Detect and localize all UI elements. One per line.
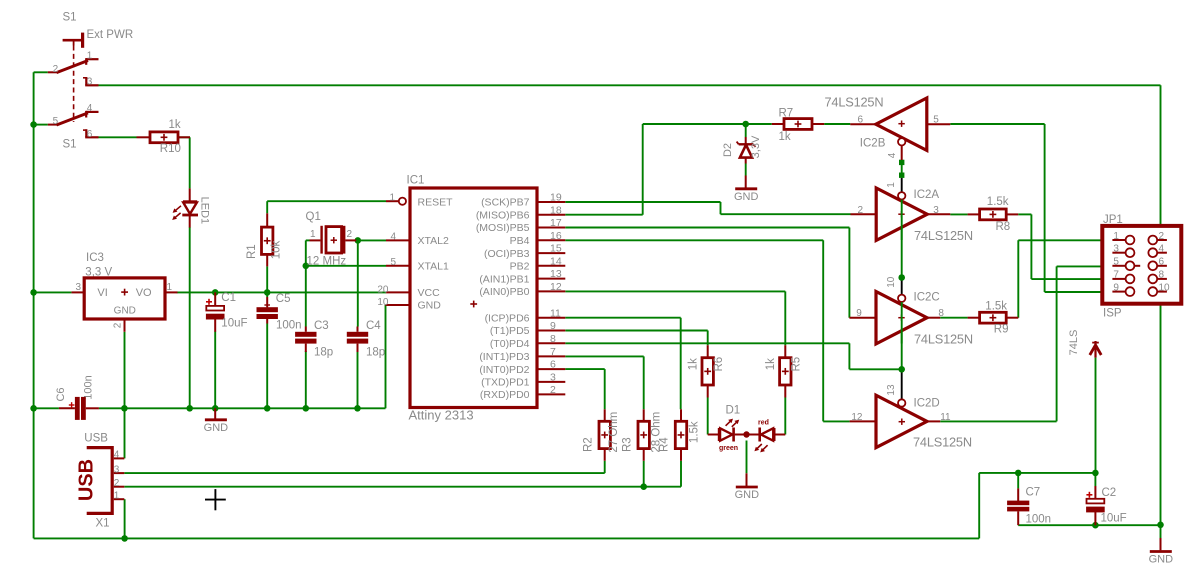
svg-text:(AIN0)PB0: (AIN0)PB0: [479, 286, 529, 298]
wire pin12 down to R5: [784, 291, 786, 345]
svg-text:(ICP)PD6: (ICP)PD6: [485, 312, 530, 324]
wire enable black segment 3: [901, 371, 903, 399]
connector JP1 pin 2 stub: [1157, 239, 1167, 241]
svg-text:27 Ohm: 27 Ohm: [608, 412, 620, 453]
resistor R9 value 1.5k: [985, 301, 1007, 313]
svg-text:(MISO)PB6: (MISO)PB6: [476, 209, 530, 221]
wire R6 bottom to green LED: [707, 398, 709, 435]
svg-text:100n: 100n: [276, 320, 302, 332]
IC IC1 pin 15 stub: [538, 252, 566, 254]
svg-text:(T0)PD4: (T0)PD4: [490, 338, 530, 350]
connector JP1 pin 6 number: [1159, 257, 1165, 268]
svg-text:3,3V: 3,3V: [750, 135, 762, 158]
svg-text:C7: C7: [1026, 487, 1041, 499]
wire RESET net horizontal: [267, 200, 386, 202]
wire RESET to R1 top: [266, 201, 268, 213]
IC IC3 GND label: [114, 306, 136, 317]
IC IC2A origin cross: [898, 211, 904, 217]
wire IC2D out: [940, 420, 1056, 422]
connector X1 USB text: [76, 459, 98, 501]
wire S1 pin2 to left rail: [34, 71, 48, 73]
capacitor C6 value 100n: [83, 375, 95, 399]
connector X1 pin 4 number: [114, 450, 120, 461]
IC IC1 pin 3 number: [550, 372, 556, 384]
wire XTAL2 node down to C4: [357, 240, 359, 326]
IC IC1 pin 7 name (INT1)PD3: [479, 351, 529, 363]
capacitor C3 plates: [295, 332, 316, 344]
IC IC2C pin8 number: [938, 308, 944, 319]
svg-text:4: 4: [1159, 244, 1165, 255]
svg-text:2: 2: [1159, 231, 1165, 242]
IC IC1 left pin 10 name GND: [418, 300, 442, 312]
LED D1 mid lead right: [750, 434, 759, 436]
junction R1-C5 / 3.3V rail: [264, 289, 271, 296]
svg-text:10: 10: [1159, 282, 1171, 293]
crystal Q1 pin1 stub: [310, 239, 321, 241]
svg-text:GND: GND: [735, 489, 760, 501]
junction C2 / VCC-74LS rail: [1092, 470, 1099, 477]
wire USB pin3 row D-: [124, 472, 604, 474]
IC IC1 pin 11 stub: [538, 317, 566, 319]
IC IC2B enable bubble pin4: [898, 138, 905, 145]
svg-text:USB: USB: [84, 433, 108, 445]
connector JP1 pin5 tail: [1134, 265, 1140, 267]
connector JP1 pin 7 number: [1113, 270, 1119, 281]
svg-text:10: 10: [377, 297, 389, 308]
IC IC1 pin 17 stub: [538, 227, 566, 229]
connector JP1 pin 4 stub: [1157, 252, 1167, 254]
svg-text:1k: 1k: [779, 131, 791, 143]
wire R8 to corner: [1018, 213, 1031, 215]
wire PB7 pin19 row: [565, 201, 720, 203]
IC IC1 pin20 number: [377, 285, 389, 296]
connector JP1 body: [1102, 226, 1181, 304]
svg-text:15: 15: [550, 243, 562, 255]
supply VCC-74LS arrow: [1090, 341, 1101, 358]
IC IC2C pin10 number: [886, 276, 897, 288]
IC IC1 pin 7 number: [550, 346, 556, 358]
IC IC1 pin 16 number: [550, 230, 562, 242]
resistor R2 value: [608, 412, 620, 453]
IC IC1 pin 19 number: [550, 192, 562, 204]
resistor R5 bottom stub: [784, 385, 786, 398]
IC IC2D enable bubble pin13: [898, 399, 905, 406]
capacitor C1 value 10uF: [221, 317, 247, 329]
wire Q1 pin1 corner: [306, 239, 310, 241]
svg-text:11: 11: [940, 412, 951, 423]
resistor R9 body: [980, 312, 1007, 323]
resistor R3 value: [650, 412, 662, 453]
diode D2 triangle: [740, 145, 752, 158]
capacitor C4 value 18p: [366, 346, 385, 358]
IC IC1 body: [410, 188, 537, 408]
wire pin16 down to IC2D input: [822, 240, 824, 421]
IC IC1 pin 14 number: [550, 255, 562, 267]
svg-text:ISP: ISP: [1103, 307, 1122, 319]
svg-text:(INT0)PD2: (INT0)PD2: [479, 364, 529, 376]
IC IC2A pin1 number: [886, 182, 897, 188]
wire RESET net up: [1056, 266, 1058, 421]
IC IC1 pin 5 stub: [386, 265, 410, 267]
resistor R7 value 1k: [779, 131, 791, 143]
connector JP1 pin 1 number: [1113, 231, 1119, 242]
IC IC1 pin 3 stub: [538, 381, 566, 383]
switch S1 pin 1 contact: [86, 58, 99, 65]
IC IC1 pin 9 stub: [538, 330, 566, 332]
wire IC2C out to R9: [940, 317, 967, 319]
LED LED1 triangle: [183, 202, 197, 214]
wire PD2 pin6 row: [565, 368, 604, 370]
junction IC3 GND / GND rail: [121, 405, 128, 412]
svg-text:10: 10: [886, 276, 897, 288]
IC IC1 pin 14 name PB2: [510, 261, 530, 273]
switch S1 pin3 number: [87, 77, 93, 88]
junction C1 / 3.3V rail: [212, 289, 219, 296]
junction C3 / GND rail: [303, 405, 310, 412]
svg-text:100n: 100n: [1026, 513, 1052, 525]
svg-text:C4: C4: [366, 320, 381, 332]
junction XTAL2 node: [355, 237, 362, 244]
junction C1-GND symbol / GND rail: [212, 405, 219, 412]
wire PD3 pin7 row: [565, 355, 643, 357]
svg-text:1: 1: [167, 282, 173, 293]
connector JP1 pin 9 number: [1113, 282, 1119, 293]
wire LED1 anode vertical: [189, 137, 191, 188]
switch S1 pin5 number: [53, 116, 59, 127]
IC IC2B input stub: [850, 123, 876, 125]
wire S1 pin3 long top net: [99, 84, 1161, 86]
IC IC2B name: [860, 138, 886, 150]
wire Q1 pin2 to node: [356, 239, 358, 241]
wire pin7 down to R3: [643, 356, 645, 409]
resistor R3 body: [638, 421, 649, 448]
wire VCC-74LS rail horizontal: [979, 472, 1095, 474]
IC IC1 pin 16 stub: [538, 239, 566, 241]
svg-text:R3: R3: [621, 437, 633, 452]
capacitor C1 top stub: [214, 292, 216, 306]
wire D2 top: [745, 124, 747, 137]
connector JP1 pin 10 stub: [1157, 291, 1167, 293]
crystal Q1 body: [326, 227, 342, 253]
resistor R3 top stub: [643, 409, 645, 421]
resistor R8 left stub: [968, 213, 980, 215]
wire C4 bottom to GND rail: [357, 351, 359, 408]
capacitor C4 bottom stub: [357, 344, 359, 352]
wire PB4 pin16 row: [565, 239, 823, 241]
LED LED1 cathode bar: [182, 214, 198, 217]
resistor R1 body: [262, 227, 273, 254]
wire R3 bottom riser: [643, 461, 645, 487]
resistor R6 value 1k: [687, 358, 699, 370]
svg-text:R5: R5: [791, 357, 803, 372]
resistor R2 name: [582, 437, 594, 452]
junction XTAL1 node: [303, 263, 310, 270]
diode D2 cathode bar: [737, 142, 756, 147]
IC IC1 pin 7 stub: [538, 355, 566, 357]
svg-text:6: 6: [550, 359, 556, 371]
wire 74LS supply down: [1095, 358, 1097, 473]
IC IC2A enable wire through: [901, 200, 903, 240]
svg-text:11: 11: [550, 307, 561, 319]
IC IC1 pin 6 stub: [538, 368, 566, 370]
wire pin19 jog down: [720, 202, 722, 214]
IC IC1 pin 10 stub: [386, 304, 411, 306]
capacitor C2 plates: [1086, 499, 1105, 513]
resistor R2 top stub: [604, 409, 606, 421]
svg-text:3: 3: [75, 282, 81, 293]
IC IC1 pin4 number: [390, 232, 396, 243]
wire USB pin1 down to bottom rail: [124, 499, 126, 538]
svg-text:VCC: VCC: [418, 287, 441, 299]
svg-text:R1: R1: [246, 244, 258, 259]
svg-text:2: 2: [112, 322, 123, 328]
wire D2 bottom: [745, 164, 747, 176]
IC IC2B origin cross: [898, 121, 904, 127]
wire PB0 pin12 row: [565, 290, 785, 292]
svg-text:74LS125N: 74LS125N: [914, 228, 973, 243]
svg-text:C5: C5: [276, 293, 291, 305]
IC IC1 pin 8 name (T0)PD4: [490, 338, 530, 350]
resistor R5 name: [791, 357, 803, 372]
diode D2 value 3,3V: [750, 135, 762, 158]
svg-text:1.5k: 1.5k: [985, 301, 1007, 313]
IC IC1 origin cross: [470, 301, 477, 308]
svg-text:D2: D2: [722, 143, 734, 157]
resistor R6 name: [713, 357, 725, 372]
svg-text:IC3: IC3: [86, 252, 104, 264]
LED LED1 anode lead: [189, 188, 191, 203]
svg-text:74LS125N: 74LS125N: [914, 331, 973, 346]
junction C4 / GND rail: [354, 405, 361, 412]
IC IC1 pin 18 number: [550, 204, 562, 216]
IC IC1 pin 9 number: [550, 320, 556, 332]
svg-text:5: 5: [53, 116, 59, 127]
wire pin6 down to R2: [604, 369, 606, 409]
svg-text:(AIN1)PB1: (AIN1)PB1: [479, 273, 529, 285]
IC IC2B pin4 number: [887, 152, 898, 158]
svg-text:1: 1: [389, 192, 395, 203]
IC IC1 pin 8 number: [550, 333, 556, 345]
svg-text:GND: GND: [114, 306, 136, 317]
wire GND rail segment B: [99, 407, 386, 409]
IC IC3 pin 1 stub: [165, 291, 178, 293]
IC IC1 name: [407, 175, 425, 187]
connector X1 pin 2 stub: [114, 486, 125, 488]
IC IC2A label 74LS125N: [914, 228, 973, 243]
IC IC1 pin 19 name (SCK)PB7: [481, 197, 530, 209]
IC IC2C pin9 number: [856, 308, 862, 319]
svg-text:1.5k: 1.5k: [689, 421, 701, 443]
wire XTAL1 row: [306, 265, 386, 267]
LED D1 green triangle: [719, 428, 732, 441]
svg-text:10uF: 10uF: [221, 317, 247, 329]
capacitor C5 top stub: [266, 297, 268, 307]
svg-text:6: 6: [857, 115, 863, 126]
wire D1 cathode down: [746, 441, 748, 474]
svg-text:PB4: PB4: [510, 235, 530, 247]
svg-text:C6: C6: [55, 387, 67, 401]
switch S1 label top: [63, 12, 77, 24]
svg-text:1: 1: [310, 229, 316, 240]
svg-text:17: 17: [550, 217, 562, 229]
capacitor C3 name: [314, 320, 329, 332]
diode D2 lead top: [745, 137, 747, 144]
ground symbol bottom right stub: [1160, 538, 1162, 550]
LED D1 red cathode bar: [758, 428, 761, 442]
IC IC1 pin5 number: [390, 257, 396, 268]
svg-text:20: 20: [377, 285, 389, 296]
IC IC3 pin2 number: [112, 322, 123, 328]
svg-text:12: 12: [851, 412, 863, 423]
wire IC3 VI to left rail: [34, 291, 72, 293]
resistor R3 bottom stub: [643, 449, 645, 461]
diode D2 name: [722, 143, 734, 157]
IC IC1 pin 13 number: [550, 268, 562, 280]
wire R9 net up: [1017, 240, 1019, 317]
IC IC1 pin 2 number: [550, 384, 556, 396]
wire PD4 pin8 row: [565, 342, 849, 344]
svg-text:LED1: LED1: [199, 197, 211, 225]
wire left +5V rail vertical: [33, 72, 35, 538]
svg-text:3: 3: [1113, 244, 1119, 255]
svg-text:1.5k: 1.5k: [987, 196, 1009, 208]
svg-text:(RXD)PD0: (RXD)PD0: [480, 389, 530, 401]
connector JP1 pin 10 number: [1159, 282, 1171, 293]
wire R8 net down: [1030, 214, 1032, 279]
wire GND rail segment A: [34, 407, 59, 409]
IC IC1 pin 15 number: [550, 243, 562, 255]
IC IC2A pin3 number: [933, 205, 939, 216]
wire 3.3V rail: [177, 291, 386, 293]
svg-text:C1: C1: [221, 292, 236, 304]
wire enable black segment 1: [901, 178, 903, 192]
capacitor C7 plates: [1007, 501, 1029, 512]
ground symbol under D2: [734, 189, 759, 203]
svg-text:IC1: IC1: [407, 175, 425, 187]
svg-text:S1: S1: [63, 139, 77, 151]
junction C5 / GND rail: [264, 405, 271, 412]
LED LED1 cathode lead: [189, 215, 191, 228]
LED D1 red triangle: [761, 428, 774, 441]
resistor R8 body: [980, 209, 1007, 220]
LED D1 red label: [758, 419, 769, 426]
connector JP1 pin 4 number: [1159, 244, 1165, 255]
connector JP1 pin 2 pad: [1148, 236, 1157, 245]
connector JP1 pin 2 number: [1159, 231, 1165, 242]
IC IC3 pin 2 stub: [124, 319, 126, 332]
switch S1 pin 3 contact: [83, 77, 99, 85]
IC IC1 pin 13 name (AIN1)PB1: [479, 273, 529, 285]
wire PB5 pin17 row: [565, 227, 849, 229]
svg-text:S1: S1: [63, 12, 77, 24]
svg-text:VI: VI: [97, 287, 107, 299]
svg-text:9: 9: [856, 308, 862, 319]
connector X1 USB label top: [84, 433, 108, 445]
IC IC1 pin 8 stub: [538, 342, 566, 344]
resistor R6 top stub: [707, 345, 709, 358]
wire C7 top stub: [1017, 473, 1019, 489]
wire pin18 riser up: [642, 124, 644, 215]
resistor R4 top stub: [680, 409, 682, 421]
switch S1 label bottom: [63, 139, 77, 151]
ground symbol under D1 stub: [746, 473, 748, 486]
junction GND symbol right: [1157, 522, 1164, 529]
wire pin8 jog down: [848, 343, 850, 369]
svg-text:74LS: 74LS: [1068, 330, 1080, 356]
svg-text:2: 2: [550, 384, 556, 396]
capacitor C5 origin cross: [264, 302, 270, 308]
connector JP1 pin 3 pad: [1126, 248, 1135, 257]
IC IC1 pin 19 stub: [538, 201, 566, 203]
svg-text:RESET: RESET: [418, 197, 454, 209]
wire MISO net down: [1044, 124, 1046, 292]
wire C1 bottom to GND rail: [214, 332, 216, 409]
IC IC1 value Attiny 2313: [409, 408, 474, 423]
svg-text:2: 2: [347, 229, 353, 240]
svg-text:X1: X1: [96, 517, 110, 529]
resistor R2 body: [599, 421, 610, 448]
connector X1 pin 1 stub: [114, 498, 125, 500]
switch S1 pin 6 contact: [83, 129, 99, 137]
svg-text:16: 16: [550, 230, 562, 242]
ground symbol bar mid-left: [204, 420, 229, 434]
connector X1 name: [96, 517, 110, 529]
connector JP1 pin 1 pad: [1126, 236, 1135, 245]
LED D1 green cathode bar: [732, 428, 735, 442]
LED D1 mid lead left: [735, 434, 744, 436]
svg-text:18p: 18p: [366, 346, 385, 358]
svg-text:18p: 18p: [314, 346, 333, 358]
wire XTAL2 row: [358, 239, 386, 241]
capacitor C7 value 100n: [1026, 513, 1052, 525]
junction R3 / D+ row: [640, 483, 647, 490]
resistor R8 right stub: [1006, 213, 1018, 215]
switch S1 pin2 number: [53, 64, 59, 75]
connector JP1 pin 7 stub: [1112, 278, 1125, 280]
wire RESET to JP1 pin5: [1057, 265, 1113, 267]
wire IC2B input net: [950, 123, 1044, 125]
junction enable node A: [898, 274, 905, 281]
IC IC2D label 74LS125N: [913, 434, 972, 449]
svg-text:IC2A: IC2A: [914, 189, 940, 201]
svg-text:10k: 10k: [271, 240, 283, 259]
svg-text:XTAL1: XTAL1: [418, 261, 449, 273]
svg-text:(SCK)PB7: (SCK)PB7: [481, 197, 530, 209]
wire R1 bottom to 3.3V rail: [266, 266, 268, 292]
switch S1 pin 4 contact: [86, 111, 99, 118]
supply VCC-74LS label: [1068, 330, 1080, 356]
wire MOSI to JP1 pin1: [1018, 239, 1112, 241]
wire GND rail riser to IC1 pin10: [385, 305, 387, 408]
IC IC1 pin 11 name (ICP)PD6: [485, 312, 530, 324]
IC IC3 pin 3 stub: [71, 291, 84, 293]
resistor R5 top stub: [784, 345, 786, 358]
IC IC1 pin1 number: [389, 192, 395, 203]
wire to IC2D input stub: [823, 420, 849, 422]
svg-text:5: 5: [390, 257, 396, 268]
svg-text:R10: R10: [160, 143, 181, 155]
IC IC1 pin 17 number: [550, 217, 562, 229]
capacitor C5 name: [276, 293, 291, 305]
wire R5 bottom to red LED: [784, 398, 786, 435]
svg-text:8: 8: [550, 333, 556, 345]
resistor R5 value 1k: [765, 358, 777, 370]
capacitor C6 left stub: [59, 407, 75, 409]
buffer IC2B triangle: [876, 98, 927, 150]
connector JP1 pin 3 stub: [1112, 252, 1125, 254]
svg-text:2: 2: [53, 64, 59, 75]
connector JP1 pin 7 pad: [1126, 275, 1135, 284]
